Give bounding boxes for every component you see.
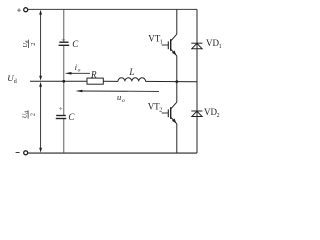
diode VD2 [191,111,202,117]
svg-text:R: R [90,69,97,79]
wire diode leg [196,9,198,153]
svg-text:VD: VD [206,38,219,48]
svg-text:L: L [128,67,134,77]
inductor L [118,78,146,82]
svg-text:2: 2 [30,42,37,45]
wire IGBT leg segments [176,9,178,34]
wire capacitor leg [63,9,65,153]
label VT2 [148,102,163,114]
capacitor C2 (lower) [56,116,67,119]
label u_o [117,92,125,104]
resistor R [87,78,103,84]
voltage arrow Ud/2 upper (dimension arrow) [39,10,42,81]
diode VD1 [191,43,202,49]
label VT1 [148,34,163,46]
current arrow i_o [65,72,90,75]
svg-text:1: 1 [160,40,163,46]
transistor VT1 (IGBT) [162,34,177,56]
svg-text:2: 2 [217,113,220,119]
svg-text:2: 2 [30,113,37,116]
svg-text:C: C [68,112,75,122]
label i_o [75,62,81,74]
terminal + (positive input) [17,8,21,12]
capacitor C1 (upper) [59,42,70,45]
svg-text:o: o [78,68,81,74]
voltage arrow Ud/2 lower (dimension arrow) [39,82,42,153]
label Ud/2 lower (rotated fraction) [22,110,37,118]
polarity + of lower C [59,107,62,110]
terminal - (negative input) [16,152,20,154]
svg-text:2: 2 [159,108,162,114]
wire top rail [28,8,197,10]
svg-text:VD: VD [204,107,217,117]
node label U_d [7,73,17,85]
junction dot (bridge midpoint) [175,80,178,83]
svg-text:C: C [72,39,79,49]
svg-text:1: 1 [219,44,222,50]
polarity + of upper C [62,38,66,42]
transistor VT2 (IGBT) [162,102,177,124]
svg-text:u: u [117,92,121,102]
voltage arrow u_o [75,90,159,93]
svg-text:o: o [122,98,125,104]
label VD2 [204,107,220,119]
label VD1 [206,38,222,50]
svg-text:d: d [14,79,17,85]
label Ud/2 upper (rotated fraction) [22,40,37,48]
wire mid load line [30,80,87,82]
wire bottom rail [28,152,197,154]
junction dot (capacitor midpoint) [62,80,65,83]
